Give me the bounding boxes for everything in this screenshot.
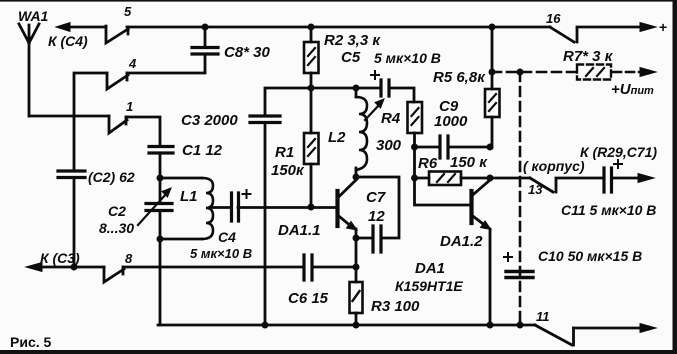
node emitter DA1.2 bottom [487, 322, 494, 329]
wire pin 4 left branch [74, 73, 107, 170]
dashed wire to R7 [492, 71, 576, 74]
svg-text:1000: 1000 [434, 113, 468, 130]
wire top rail [127, 26, 550, 29]
node R6 left [411, 175, 418, 182]
capacitor C8 [204, 27, 207, 46]
wire DA1.2 emitter down [489, 229, 492, 325]
svg-text:5: 5 [124, 4, 132, 19]
node R4 bottom [411, 144, 418, 151]
svg-text:С7: С7 [366, 189, 386, 206]
svg-text:К (R29,С71): К (R29,С71) [580, 144, 657, 160]
svg-text:+: + [659, 19, 667, 35]
pin 5 [106, 26, 128, 43]
svg-text:К159НТ1Е: К159НТ1Е [395, 278, 463, 294]
trimmer arrow L2 [365, 105, 379, 120]
svg-text:DA1: DA1 [415, 260, 445, 277]
svg-text:С10 50 мк×15 В: С10 50 мк×15 В [538, 248, 642, 264]
pin 11 [535, 325, 574, 345]
wire pin 8 to C6 [123, 266, 303, 269]
wire pin 4 to C8 [127, 72, 205, 73]
svg-text:С6 15: С6 15 [288, 290, 329, 307]
wire pin 1 to C1 [126, 117, 160, 146]
svg-text:L2: L2 [328, 129, 346, 146]
node R2 bottom [308, 85, 315, 92]
pin 13 [530, 178, 556, 192]
capacitor C6 [304, 255, 312, 280]
svg-text:WA1: WA1 [18, 8, 49, 24]
svg-text:5 мк×10 В: 5 мк×10 В [374, 50, 441, 66]
wire R4 node down [413, 147, 416, 178]
wire bottom rail [158, 324, 535, 327]
svg-text:4: 4 [128, 56, 137, 71]
svg-text:DA1.1: DA1.1 [278, 222, 321, 239]
resistor R7 [577, 65, 611, 80]
capacitor C5 [381, 80, 389, 96]
svg-text:Рис. 5: Рис. 5 [10, 334, 52, 350]
svg-text:R7* 3 к: R7* 3 к [563, 48, 614, 65]
pin 1 [109, 116, 127, 133]
capacitor C7 [373, 226, 381, 252]
capacitor (C2) 62 [58, 171, 85, 178]
resistor R4 [408, 102, 423, 133]
resistor R3 [350, 282, 363, 313]
svg-text:R6: R6 [418, 155, 438, 172]
wire pin 16 to supply arrow [577, 26, 642, 29]
svg-text:1: 1 [126, 99, 133, 114]
svg-text:L1: L1 [180, 188, 198, 205]
svg-text:5 мк×10 В: 5 мк×10 В [190, 246, 252, 261]
svg-text:R1: R1 [275, 144, 294, 161]
node (C2) bottom [71, 264, 78, 271]
node R2 top rail [308, 24, 315, 31]
wire C3 to bottom rail [264, 123, 267, 325]
capacitor C1 [149, 147, 173, 154]
node C9 right [487, 144, 494, 151]
svg-text:16: 16 [546, 11, 561, 26]
svg-text:( корпус): ( корпус) [523, 158, 585, 174]
svg-text:150к: 150к [271, 162, 305, 179]
svg-text:С1 12: С1 12 [182, 142, 223, 159]
resistor R2 [310, 27, 313, 42]
resistor R6 [415, 177, 430, 180]
wire tank vertical lower [159, 211, 162, 325]
node collector DA1.1 [353, 174, 360, 181]
svg-text:К (С4): К (С4) [48, 33, 88, 49]
arrow К (R29,С71) [638, 174, 654, 183]
capacitor C2 variable [146, 204, 172, 211]
dashed shield line корпус [519, 72, 522, 325]
capacitor C3 [250, 116, 280, 123]
svg-text:150 к: 150 к [450, 154, 488, 171]
svg-text:300: 300 [376, 137, 402, 154]
node emitter C6 [353, 264, 360, 271]
node tank bottom [157, 236, 164, 243]
svg-text:13: 13 [528, 182, 543, 197]
node R6 right [487, 175, 494, 182]
svg-text:12: 12 [368, 208, 385, 225]
capacitor C11 [556, 177, 603, 180]
svg-text:С3 2000: С3 2000 [181, 112, 238, 129]
node R5 top rail [489, 24, 496, 31]
svg-text:С11 5 мк×10 В: С11 5 мк×10 В [561, 202, 656, 218]
node emitter C7 [353, 235, 360, 242]
wire C5 feed [311, 87, 380, 90]
wire antenna to pin 1 [29, 115, 109, 118]
svg-text:С5: С5 [341, 49, 361, 66]
svg-text:R2 3,3 к: R2 3,3 к [324, 32, 381, 49]
pin 8 [104, 267, 124, 282]
wire pin 11 to output arrow [574, 327, 643, 330]
capacitor C4 [210, 206, 229, 209]
inductor L1 [160, 177, 202, 180]
capacitor C9 [415, 146, 440, 149]
wire R2 node to C3 [265, 88, 311, 115]
pin 4 [107, 73, 128, 89]
node dashed tap shield [517, 69, 524, 76]
arrow +Uпит [613, 71, 642, 74]
resistor R1 [310, 88, 313, 133]
transistor DA1.2 [469, 191, 473, 223]
wire emitter down [355, 229, 358, 282]
svg-text:8...30: 8...30 [99, 220, 134, 236]
svg-text:R3 100: R3 100 [371, 298, 420, 315]
pin 16 [550, 27, 577, 42]
arrow К (С4) [68, 26, 106, 29]
inductor L2 [355, 88, 358, 97]
svg-text:11: 11 [536, 309, 550, 324]
wire collector loop to C7 [356, 177, 399, 238]
node R5 dashed tap [489, 69, 496, 76]
svg-text:С8* 30: С8* 30 [224, 44, 271, 61]
transistor DA1.1 [335, 191, 339, 226]
svg-text:С2: С2 [108, 203, 126, 219]
node shield bottom [517, 322, 524, 329]
wire to DA1.2 base [415, 178, 471, 205]
wire C4 to base node [238, 206, 336, 209]
svg-text:R4: R4 [381, 110, 401, 127]
node L2 top [353, 85, 360, 92]
node top rail / C8 [202, 24, 209, 31]
svg-text:R5 6,8к: R5 6,8к [433, 69, 486, 86]
svg-text:8: 8 [125, 251, 133, 266]
node R3 bottom [353, 322, 360, 329]
wire pin 13 feed [490, 177, 530, 180]
node tank top [157, 175, 164, 182]
antenna WA1 [19, 24, 39, 116]
arrow К (С3) [40, 266, 104, 269]
wire C1 to tank top [159, 153, 162, 203]
wire C5 to R4 [389, 88, 414, 102]
node base DA1.1 [308, 204, 315, 211]
svg-text:(С2) 62: (С2) 62 [88, 169, 135, 185]
svg-text:С4: С4 [218, 229, 236, 245]
capacitor C10 [506, 272, 533, 278]
resistor R5 [491, 27, 494, 89]
svg-text:DA1.2: DA1.2 [440, 233, 483, 250]
node bottom rail C3 [262, 322, 269, 329]
